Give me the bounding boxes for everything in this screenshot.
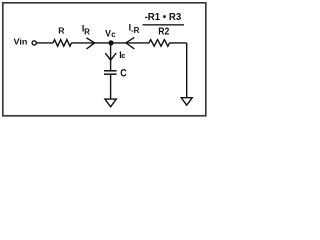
- wire corner down to ground: [186, 43, 188, 98]
- node Vc dot: [108, 40, 113, 45]
- wire node to R2: [111, 42, 149, 44]
- current arrow I-R (leftward): [126, 37, 134, 49]
- svg-text:R: R: [84, 28, 90, 37]
- wire node down to capacitor: [110, 43, 112, 70]
- wire R2 to corner: [170, 42, 187, 44]
- wire R to node Vc: [72, 42, 109, 44]
- wire capacitor to ground: [110, 75, 112, 99]
- current arrow IR (rightward): [87, 38, 95, 49]
- fraction bar: [143, 24, 185, 26]
- resistor R2: [149, 40, 170, 47]
- wire Vin to R: [37, 42, 53, 44]
- svg-text:R2: R2: [158, 26, 169, 37]
- border frame: [3, 3, 206, 116]
- svg-text:C: C: [120, 67, 126, 79]
- ground left: [105, 99, 116, 107]
- svg-text:-R: -R: [131, 26, 140, 35]
- svg-text:c: c: [121, 51, 125, 60]
- capacitor C bottom plate: [104, 73, 117, 75]
- svg-text:c: c: [111, 30, 116, 39]
- capacitor C top plate: [104, 70, 117, 72]
- input terminal circle: [32, 41, 36, 45]
- current arrow Ic (downward): [105, 53, 116, 60]
- svg-text:-R1 • R3: -R1 • R3: [145, 12, 182, 23]
- svg-text:Vin: Vin: [14, 37, 28, 47]
- svg-text:V: V: [105, 28, 111, 38]
- resistor R: [53, 40, 71, 47]
- ground right: [181, 98, 192, 106]
- svg-text:R: R: [58, 26, 65, 36]
